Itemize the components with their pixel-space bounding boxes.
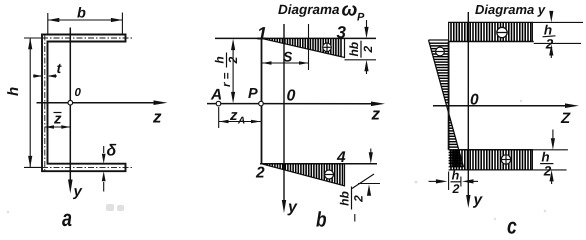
dimension hb/2 bottom (part b) [370, 149, 372, 154]
omega diagram triangle, bottom flange [262, 164, 345, 186]
svg-text:c: c [507, 214, 517, 239]
minus sign in bottom triangle [325, 170, 334, 179]
svg-text:Diagrama: Diagrama [278, 2, 340, 17]
top flange line (part b) [215, 37, 376, 39]
svg-text:b: b [316, 209, 327, 232]
y-diagram sloping line on web [429, 40, 464, 167]
svg-text:r =: r = [221, 72, 233, 87]
bottom flange centerline [42, 166, 133, 168]
bottom flange line (part b) [260, 163, 377, 165]
svg-text:Diagrama y: Diagrama y [475, 2, 546, 17]
svg-text:a: a [62, 205, 72, 231]
web line (part c) [448, 42, 450, 150]
dimension s (flange coordinate) [308, 24, 310, 70]
point P (pole) [259, 101, 264, 106]
bottom flange line (part c) [449, 149, 533, 151]
plus sign in bottom rectangle [501, 155, 510, 164]
svg-text:1: 1 [257, 24, 267, 44]
y axis (part b) [283, 24, 285, 201]
svg-text:z: z [229, 107, 238, 124]
dimension h/2 bottom left (part c) [448, 172, 450, 191]
plus sign in top triangle [323, 43, 332, 52]
dimension b (top width, part a) [48, 13, 123, 35]
svg-text:b: b [77, 6, 86, 22]
label b (sub-figure b) [316, 209, 327, 232]
z axis (part c) [433, 105, 567, 107]
minus sign in top rectangle [497, 27, 507, 37]
bottom edge of web triangle [449, 166, 464, 168]
z axis (part a) [37, 102, 157, 104]
svg-text:h: h [452, 169, 460, 183]
svg-text:0: 0 [287, 88, 296, 105]
svg-text:z: z [152, 108, 162, 127]
dimension r = h/2 [232, 44, 234, 98]
svg-text:3: 3 [337, 23, 347, 42]
omega diagram triangle, top flange [262, 38, 345, 57]
svg-text:2: 2 [352, 195, 366, 203]
svg-text:2: 2 [361, 46, 375, 54]
top flange centerline [42, 37, 134, 39]
label c (sub-figure c) [507, 214, 517, 239]
cross-hatch overlay, lower web triangle [450, 150, 460, 167]
channel section outline (part a) [42, 35, 126, 172]
svg-text:z: z [371, 105, 381, 124]
z axis (part b) [207, 103, 373, 105]
web line (part b) [261, 38, 263, 163]
svg-text:2: 2 [545, 37, 554, 52]
svg-text:4: 4 [336, 149, 346, 166]
svg-text:2: 2 [452, 182, 460, 196]
svg-text:A: A [210, 87, 222, 104]
svg-text:A: A [237, 116, 245, 127]
svg-text:y: y [473, 192, 484, 209]
web centerline [44, 35, 46, 172]
faint print-through artifacts [7, 100, 547, 220]
svg-text:0: 0 [75, 87, 82, 99]
svg-text:2: 2 [255, 165, 265, 182]
svg-text:2: 2 [226, 56, 240, 64]
y axis (part a) [69, 28, 71, 183]
svg-text:y: y [287, 199, 298, 216]
dimension h/2 top right (part c) [532, 21, 583, 23]
svg-text:δ: δ [107, 143, 117, 160]
dimension hb/2 top (part b) [366, 20, 368, 29]
svg-text:Z: Z [560, 110, 571, 127]
y axis (part c) [467, 12, 469, 196]
dimension h (height, part a) [24, 38, 42, 168]
y-diagram rectangle, top flange [449, 22, 533, 41]
svg-text:P: P [248, 86, 258, 102]
web triangle hatch (positive, lower) [449, 116, 450, 118]
top flange line (part c) [449, 41, 534, 43]
top edge of web triangle [429, 39, 449, 41]
svg-text:y: y [73, 183, 83, 200]
label a (sub-figure a) [62, 205, 72, 231]
svg-text:hb: hb [338, 191, 352, 206]
svg-text:2: 2 [543, 164, 552, 179]
dimension delta (flange thickness) [103, 146, 105, 192]
svg-text:ω: ω [342, 0, 358, 21]
origin O (part a) [68, 100, 73, 105]
point A [216, 101, 221, 106]
dimension h/2 bottom right (part c) [533, 149, 568, 151]
web triangle hatch (negative, upper) [429, 42, 448, 44]
svg-text:P: P [357, 12, 365, 24]
svg-text:h: h [5, 87, 22, 96]
svg-text:hb: hb [347, 42, 361, 57]
svg-text:h: h [541, 150, 549, 165]
y-diagram rectangle, bottom flange [449, 150, 533, 170]
dimension t (web thickness) [33, 75, 57, 77]
svg-text:h: h [213, 56, 227, 63]
minus sign in upper web triangle [436, 47, 445, 56]
dimension z_A [218, 107, 220, 128]
dimension z-bar (centroid offset) [45, 126, 70, 128]
svg-text:h: h [544, 23, 552, 38]
